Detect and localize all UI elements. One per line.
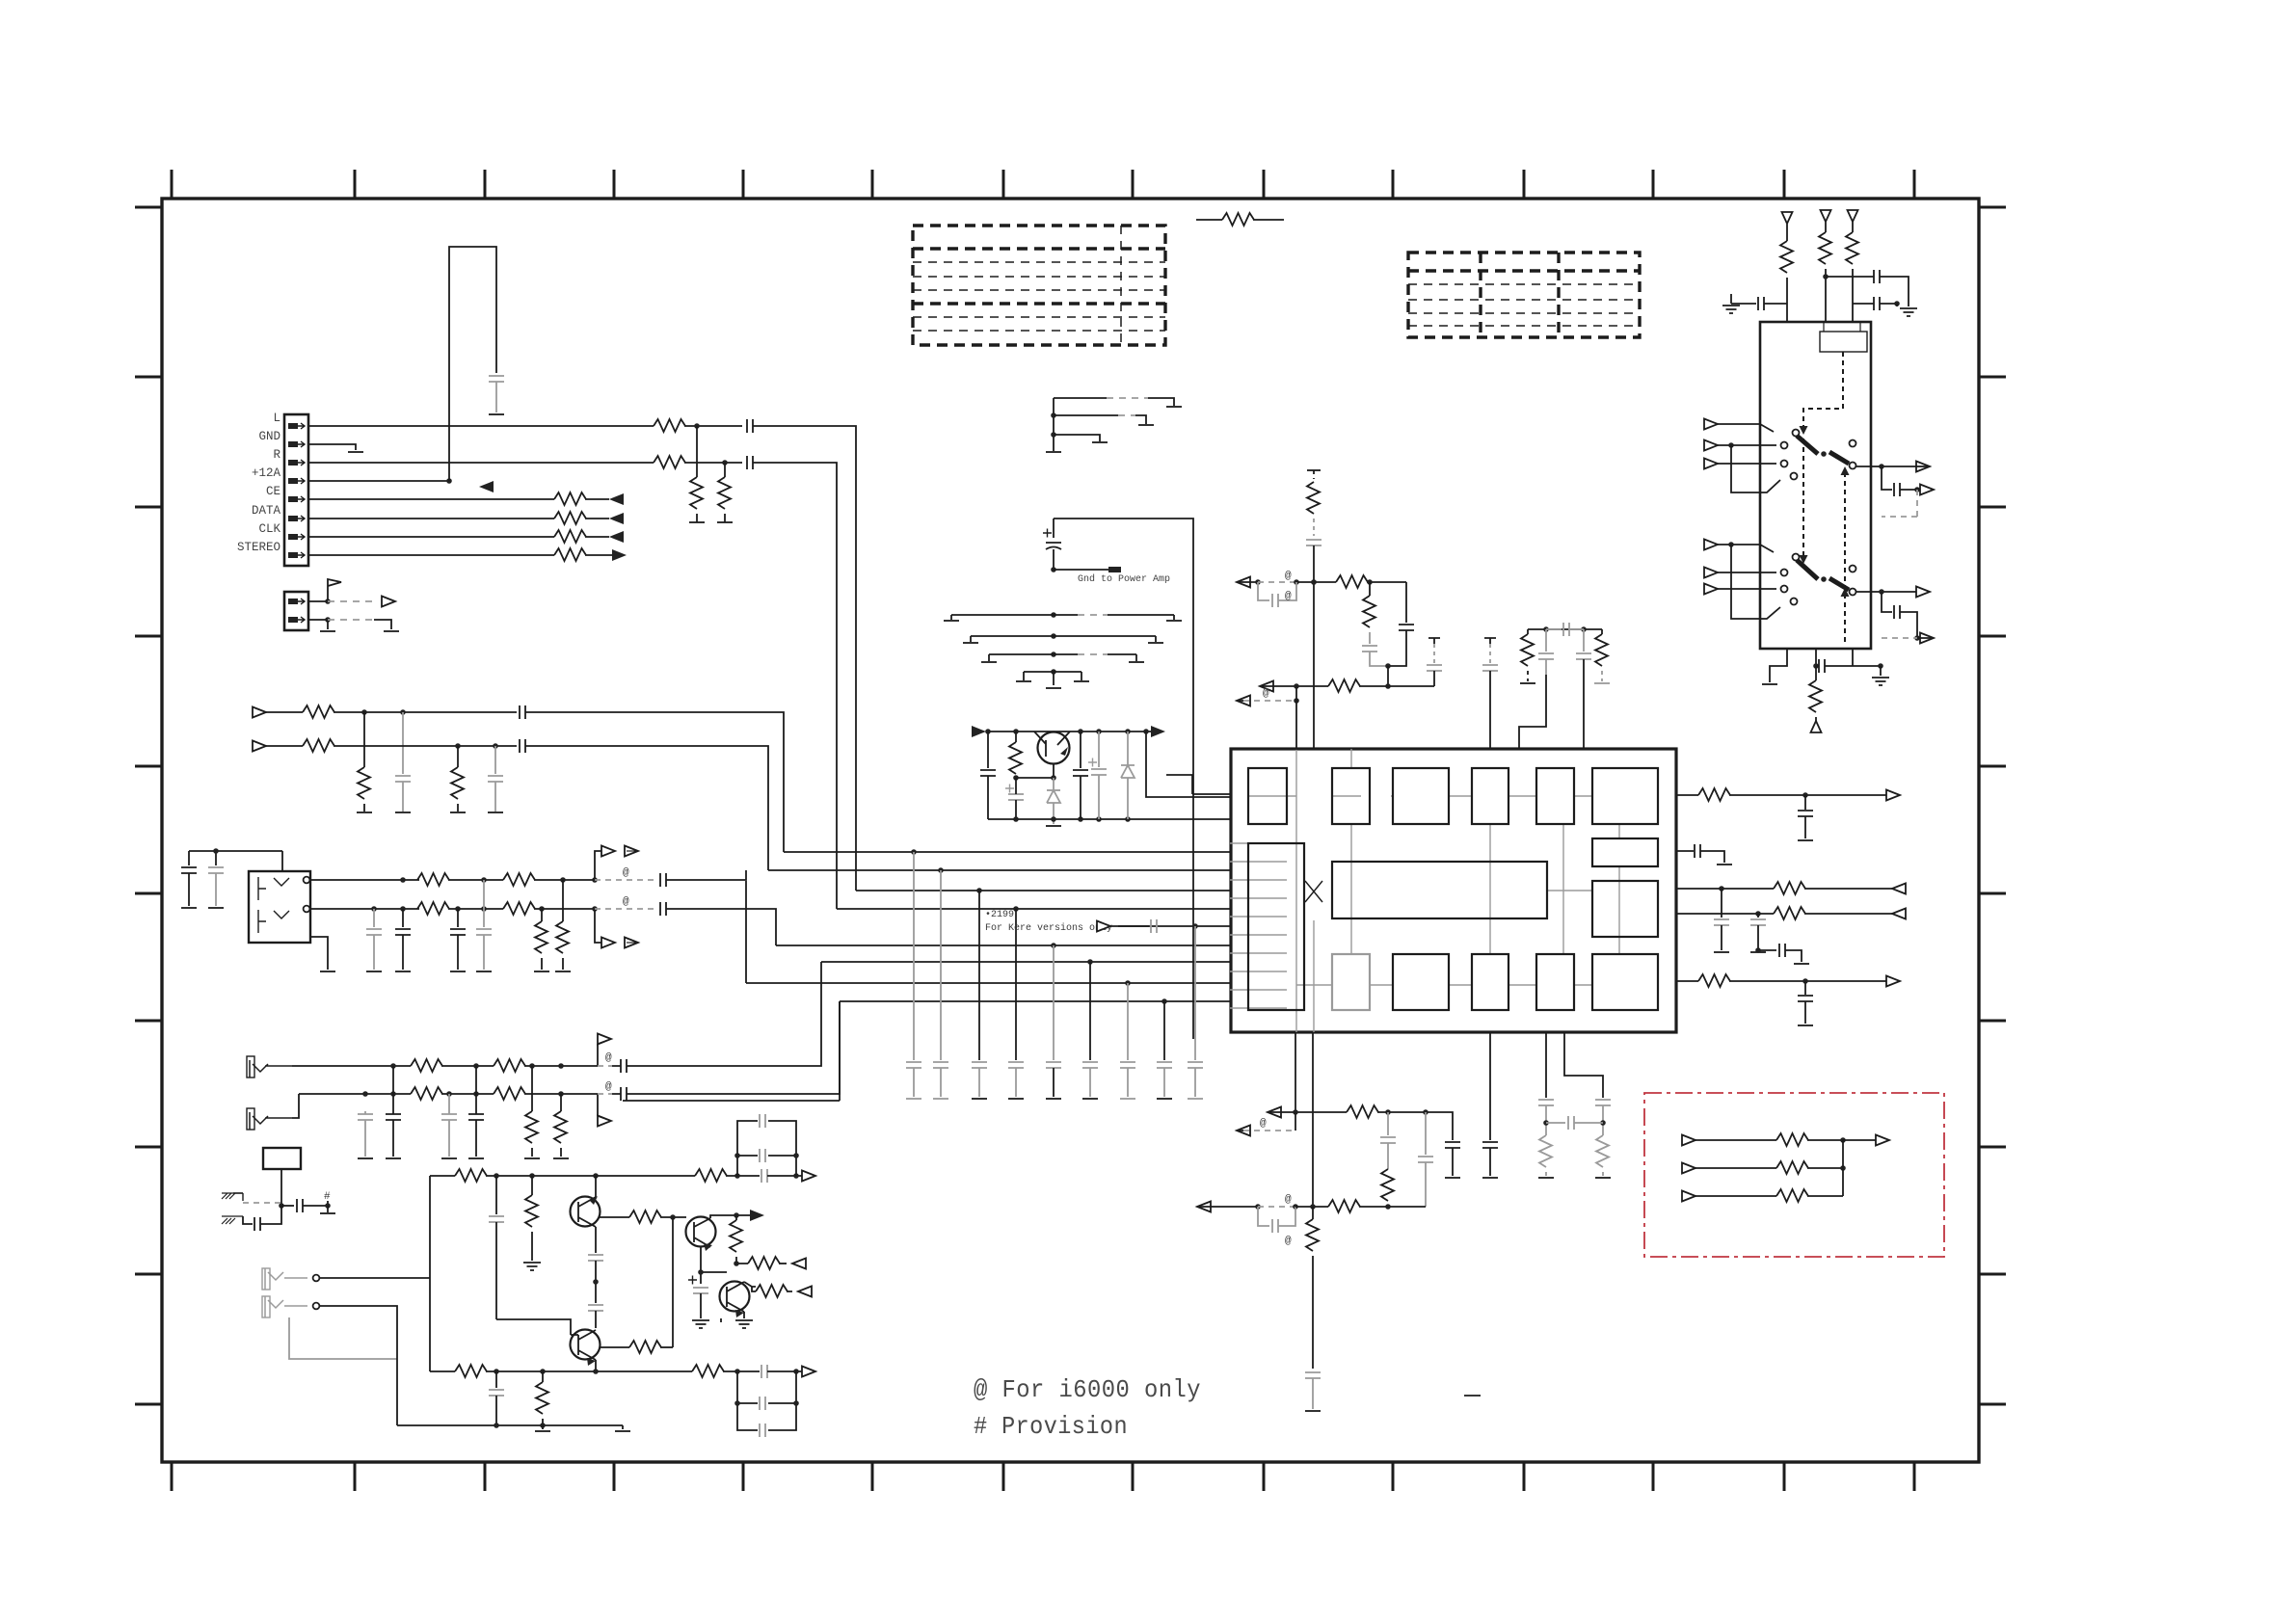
at-link row y727 (1237, 696, 1250, 706)
resistor to gnd row1a (363, 712, 365, 767)
resistor PA2 (494, 1059, 525, 1072)
IC right box R3 (1592, 954, 1658, 1010)
open triangle bottom (1811, 721, 1822, 732)
bottom rail of regulator (988, 818, 1230, 820)
switch lever lower A (1797, 560, 1818, 579)
resistor to gnd at R junction (724, 463, 726, 477)
branch resistor down (1369, 582, 1371, 596)
resistor below box (1815, 666, 1817, 680)
capacitor JA series (660, 873, 666, 887)
svg-text:+12A: +12A (252, 466, 281, 480)
decoupling comb c2 (940, 870, 942, 1060)
IC inner box top B4 (1472, 768, 1508, 824)
CN1 pin 3 (288, 460, 305, 466)
capacitor PB series (621, 1087, 627, 1101)
wire L resistor to cap (684, 425, 742, 427)
amp row1 (430, 1175, 455, 1177)
svg-text:GND: GND (258, 430, 280, 443)
interstage vertical (672, 1217, 674, 1347)
capacitor PA series (621, 1059, 627, 1073)
dashed table 2 (1408, 253, 1640, 337)
bottom edge tick marks (172, 1462, 1914, 1491)
power arrow V3 (1848, 210, 1858, 232)
switch contact circles upper (1793, 430, 1800, 437)
power arrow V2 (1821, 210, 1831, 232)
resistor R-STEREO (554, 548, 586, 561)
node R junction (722, 460, 728, 466)
cap hang B1 (495, 1371, 497, 1388)
switch-link B (595, 909, 602, 943)
small box component (263, 1148, 301, 1169)
chassis gnd small cluster (233, 1193, 243, 1201)
svg-text:CLK: CLK (258, 522, 280, 536)
Q2 base feed (496, 1319, 578, 1335)
cap link RO3b (1758, 949, 1776, 951)
capacitor C-R series (747, 456, 753, 469)
Q3 emitter chain (701, 1247, 727, 1284)
bypass cap at604 (1258, 582, 1269, 600)
ground bar 12A (489, 413, 504, 415)
top rail to right vertical (1054, 519, 1193, 1039)
IC bottom stub x1623 to x1663 (1564, 1032, 1603, 1098)
resistor RC-L (1527, 629, 1529, 634)
svg-text:@: @ (1263, 688, 1269, 700)
capacitor B-out (761, 1365, 767, 1378)
CN1 pin 7 (288, 534, 305, 540)
at-link row y604 (1237, 577, 1250, 588)
bottom rail (397, 1424, 623, 1426)
capacitor series row1 (520, 705, 525, 719)
cap chain x1440 (1387, 1112, 1389, 1135)
resistor RO1 (1698, 788, 1730, 801)
arrow CLK (609, 531, 624, 543)
floating resistor top (1196, 219, 1222, 221)
bus line y961 kere to IC (1118, 925, 1230, 927)
IC bottom stub x1344 (1295, 1032, 1296, 1112)
decoupling comb c1 (913, 852, 915, 1060)
resistor RO4 (1698, 974, 1730, 987)
CN1 labels (237, 412, 281, 554)
small dash mark (1464, 1395, 1481, 1397)
resistor U2 (1328, 1200, 1360, 1212)
IC inner box top B1 (1248, 768, 1287, 824)
left input row 2 arrow (253, 741, 266, 752)
cap gnd JA2 (483, 880, 485, 927)
svg-text:@: @ (623, 867, 629, 879)
switch IC box U2 (1760, 322, 1871, 649)
inner control box (1820, 332, 1867, 352)
resistor mid2 (1328, 679, 1360, 692)
svg-text:@: @ (1285, 1194, 1292, 1206)
bus line y1039 to IC (840, 1000, 1230, 1002)
wire R cap to corner down (753, 463, 837, 909)
cap gnd RO3 (1757, 914, 1759, 918)
resistor QB (1015, 732, 1017, 742)
resistor R-V1 (1780, 241, 1793, 273)
gnd row 2 (1051, 412, 1056, 418)
IC U1 body (1231, 749, 1676, 1032)
plus cap Q3 (688, 1276, 697, 1285)
node V2 (1823, 274, 1829, 279)
zener D1 (1053, 778, 1055, 790)
row y1154 under IC (1268, 1107, 1281, 1118)
bus line y1020 to IC (746, 982, 1230, 984)
star ground row B (1051, 633, 1056, 639)
IC internal gray verticals (1230, 749, 1619, 1032)
red box join vertical (1842, 1140, 1844, 1196)
red provision box (1644, 1093, 1944, 1257)
CN2 pin1 wire (308, 600, 328, 602)
capacitor hash series (297, 1199, 303, 1212)
capacitor C-bot (1819, 659, 1825, 673)
svg-text:# Provision: # Provision (974, 1412, 1128, 1441)
lower input branch upper group (1731, 445, 1780, 492)
cap QC (1080, 732, 1081, 768)
svg-text:•2199: •2199 (985, 910, 1014, 920)
cap in (987, 732, 989, 768)
red box row 1 (1682, 1135, 1695, 1146)
resistor P1 (1776, 1133, 1808, 1146)
svg-text:For Kere versions only: For Kere versions only (985, 922, 1112, 934)
svg-text:DATA: DATA (252, 504, 281, 518)
input arrow S2 (1704, 440, 1718, 451)
jack set 2 row B (299, 1093, 411, 1095)
top edge tick marks (172, 170, 1914, 199)
jack set 2 : jack A (250, 1060, 292, 1078)
cap ladder top (737, 1121, 796, 1176)
amp input vertical (429, 1176, 431, 1371)
resistor row2 (303, 739, 334, 752)
filled arrow on +12A (479, 481, 494, 492)
resistor P3 (1776, 1189, 1808, 1202)
capacitor jleft2 (208, 867, 224, 873)
resistor to gnd at L junction (696, 426, 698, 477)
IC output R1 cap (1676, 850, 1694, 852)
resistor P2 (1776, 1161, 1808, 1174)
capacitor C-V2 (1874, 270, 1880, 283)
CN2 pin2 dashed (328, 619, 374, 621)
capacitor C-out2 (1894, 605, 1900, 619)
resistor B2 (692, 1365, 724, 1377)
stub x1362 down (1312, 1207, 1314, 1219)
IC left tall box (1248, 843, 1304, 1010)
red box row 3 (1682, 1191, 1695, 1202)
resistor A2 (695, 1169, 727, 1182)
resistor R-CE (554, 492, 586, 505)
bus line y998 to IC (821, 961, 1230, 963)
resistor RO3 (1774, 907, 1805, 919)
coupling cap Q1Q2 b (588, 1305, 603, 1311)
bus line y884 to IC (784, 851, 1230, 853)
transistor Q5 (1038, 732, 1070, 764)
CN1 pin 1 (288, 423, 305, 429)
Q4 output resistor (744, 1282, 756, 1291)
resistor JA2 (503, 873, 535, 886)
decoupling comb c7 (1127, 983, 1129, 1060)
junction on supply column (1311, 579, 1317, 585)
CN1 pin 6 (288, 516, 305, 521)
decoupling comb c3 (978, 891, 980, 1060)
switch lever upper B (1829, 452, 1849, 464)
transistor Q1 (571, 1197, 601, 1227)
cap to gnd row1b (402, 712, 404, 774)
resistor R-CLK (554, 530, 586, 543)
bus line y943 to IC (837, 908, 1230, 910)
svg-text:CE: CE (266, 485, 280, 498)
power arrow V1 (1782, 212, 1793, 241)
wire CLK (308, 536, 554, 538)
gnd row 3 (1051, 432, 1056, 438)
svg-text:@: @ (1260, 1118, 1267, 1130)
phones jack A (262, 1268, 270, 1290)
cap chain x1479 (1425, 1112, 1427, 1155)
resistor R-DATA (554, 512, 586, 524)
RC cluster above IC rail (1528, 628, 1602, 630)
ground GND pin (348, 451, 363, 453)
right branch to 827 (1146, 732, 1230, 797)
phones jack A wire (320, 1277, 430, 1279)
svg-text:@ For i6000 only: @ For i6000 only (974, 1375, 1201, 1404)
plus cap QD (1088, 758, 1097, 767)
resistor RC-R (1601, 629, 1603, 634)
wire +12A pin (308, 480, 449, 482)
resistor mid1 (1314, 581, 1336, 583)
CN2 pin 1 (288, 599, 305, 604)
rail arrow out (1151, 726, 1165, 737)
IC output row y922 (1676, 888, 1774, 890)
output lower cap branch (1882, 592, 1892, 612)
jack row A (309, 879, 419, 881)
IC bottom stub x1546 (1489, 1032, 1491, 1140)
ground bar CN2a (320, 630, 335, 632)
interstage resistor R1a (600, 1216, 629, 1218)
svg-text:@: @ (1285, 591, 1292, 602)
transistor Q4 (720, 1282, 750, 1312)
plus cap QB (1005, 785, 1014, 793)
decoupling comb c4 (1015, 909, 1017, 1060)
cap gnd RO2 (1721, 889, 1722, 918)
cap bridge RC (1546, 628, 1562, 630)
interstage resistor R2a (600, 1346, 629, 1348)
arrow STEREO (612, 549, 627, 561)
red box row 2 (1682, 1163, 1695, 1174)
jack row B (309, 908, 419, 910)
res gnd P2 (560, 1094, 562, 1111)
cap ladder bottom (737, 1371, 796, 1430)
resistor R-L (654, 419, 685, 432)
earth bottom of star (1046, 687, 1061, 689)
amp row2 (430, 1370, 455, 1372)
resistor to gnd row2a (457, 746, 459, 767)
IC inner box top B3 (1393, 768, 1449, 824)
gnd stem bottom bar (1046, 451, 1061, 453)
jack set 2 : jack B (250, 1112, 292, 1130)
wire L cap to corner down (753, 426, 856, 891)
decoupling comb c8 (1163, 1001, 1165, 1060)
CN1 pin 4 (288, 478, 305, 484)
row y1252 under IC (1197, 1202, 1211, 1212)
cap x1507 (1445, 1142, 1460, 1148)
Q3 collector to arrow (710, 1215, 750, 1218)
zener D2 (1127, 732, 1129, 765)
Q4 emitter gnd (721, 1312, 744, 1322)
switch-link PA (597, 1044, 599, 1066)
box bottom stub left (1770, 649, 1787, 682)
resistor PB1 (411, 1087, 442, 1100)
decoupling comb c5 (1053, 945, 1055, 1060)
wire V2 to cap right (1826, 276, 1874, 278)
switch-link PB (597, 1094, 599, 1116)
res hang A1 (531, 1176, 533, 1195)
wire R pin to resistor (308, 462, 654, 464)
IC bottom box C4 (1536, 954, 1574, 1010)
output lower (1856, 591, 1916, 593)
capacitor jleft1 (181, 867, 197, 873)
switch lever lower B (1829, 578, 1849, 590)
ground bar bottom left (1762, 683, 1777, 685)
arrow DATA (609, 513, 624, 524)
jack J1 ground stub (310, 937, 328, 970)
left edge tick marks (135, 207, 162, 1404)
resistor R-R (654, 456, 685, 468)
gnd-to-poweramp vertical top (1053, 519, 1055, 538)
resistor JB1 (417, 902, 449, 915)
IC top entry wire (1166, 775, 1230, 794)
resistor PB2 (494, 1087, 525, 1100)
capacitor C-L series (747, 419, 753, 433)
cap to gnd row2b (494, 746, 496, 774)
IC inner box top B5 (1536, 768, 1574, 824)
coupling cap Q1Q2 a (588, 1255, 603, 1261)
ground bar L divider (689, 521, 705, 523)
svg-text:@: @ (623, 896, 629, 908)
decoupling comb c6 (1089, 962, 1091, 1060)
res hang B2 (542, 1371, 544, 1382)
IC bottom stub x1362 (1312, 1032, 1314, 1207)
jack block J1 body (249, 871, 310, 943)
cap to gnd RO4 (1804, 981, 1806, 995)
gnd row 1 (1054, 397, 1107, 399)
IC bottom box C1 (1332, 954, 1370, 1010)
bus line y903 to IC (768, 869, 1230, 871)
wire to Gnd label (1054, 569, 1108, 571)
output upper cap branch (1882, 466, 1892, 490)
regulator rail arrow in (972, 726, 986, 737)
svg-text:@: @ (1285, 1236, 1292, 1247)
IC inner box top B6 (1592, 768, 1658, 824)
input arrow S4 (1704, 540, 1718, 550)
dashed control line 1 (1803, 352, 1843, 427)
resistor row1 (303, 705, 334, 718)
CN2 pin1 dashed wire (328, 600, 376, 602)
bus line y924 to IC (856, 890, 1230, 891)
svg-text:L: L (273, 412, 280, 425)
cap down RC-1 (1545, 629, 1547, 652)
decoupling comb c9 (1194, 926, 1196, 1060)
phones jack B wire (320, 1306, 397, 1425)
CN2 pin 2 (288, 617, 305, 623)
IC output row y948 (1676, 913, 1774, 915)
capacitor C-12A (489, 376, 504, 382)
switch lever upper A (1797, 436, 1818, 454)
switch-link A (595, 851, 602, 880)
cap bridge y1165 (1546, 1122, 1565, 1124)
capacitor kere series (1151, 919, 1157, 933)
capacitor JB series (660, 902, 666, 916)
dashed control line 2 (1844, 472, 1846, 644)
switch contact circles lower (1793, 554, 1800, 561)
svg-text:Gnd to Power Amp: Gnd to Power Amp (1078, 573, 1170, 585)
sheet border frame (162, 199, 1979, 1462)
output upper (1856, 466, 1916, 467)
arrow CE (609, 493, 624, 505)
res gnd JB3 (562, 880, 564, 921)
wire DATA (308, 518, 554, 519)
connector CN2 body (284, 592, 308, 630)
kere arrow (1097, 921, 1110, 932)
rail wire (986, 731, 1151, 732)
capacitor C-V1left (1758, 297, 1764, 310)
resistor U1 (1347, 1105, 1378, 1118)
cap column x1546 (1484, 638, 1496, 644)
wire STEREO (308, 554, 554, 556)
star ground row A (1051, 612, 1056, 618)
caps left of jack block (189, 851, 282, 865)
input arrow S5 (1704, 568, 1718, 578)
ground bar CN2b (384, 630, 399, 632)
svg-text:R: R (273, 448, 280, 462)
svg-text:@: @ (1285, 571, 1292, 582)
wire GND pin (308, 444, 356, 450)
dashed table 1 (913, 226, 1165, 345)
input arrow S3 (1704, 459, 1718, 469)
capacitor series row2 (520, 739, 525, 753)
svg-text:@: @ (605, 1081, 612, 1093)
star ground row D (1051, 669, 1056, 675)
Q3 bias resistor (735, 1215, 737, 1220)
supply column x1363 above IC (1307, 469, 1321, 471)
cap gnd JA1 (402, 909, 404, 927)
IC output row y1018 (1676, 980, 1698, 982)
wire L pin to resistor (308, 425, 654, 427)
plus sign (1043, 529, 1052, 538)
cap hang A1 (495, 1176, 497, 1214)
bypass cap y1272 (1258, 1207, 1269, 1226)
star ground row C (1051, 652, 1056, 657)
text 2199 note (985, 910, 1112, 934)
IC bottom box C3 (1472, 954, 1508, 1010)
res gnd JA3 (541, 909, 543, 921)
resistor B1 (455, 1365, 487, 1377)
connector CN1 body (284, 414, 308, 566)
wire +12A loop up (449, 247, 496, 481)
resistor R-V3 (1846, 232, 1858, 264)
row y712 (1260, 681, 1273, 692)
hang caps/res row PA/PB (364, 1111, 366, 1114)
right edge tick marks (1979, 207, 2006, 1404)
bottom cap branch (1815, 649, 1817, 666)
CN1 pin 8 (288, 552, 305, 558)
bus line y981 to IC (776, 945, 1230, 946)
cap down RC-2 (1583, 629, 1585, 652)
CN1 pin 5 (288, 496, 305, 502)
jack set 2 row A (292, 1065, 411, 1067)
phones jack B (262, 1296, 270, 1317)
wire R resistor to cap (684, 462, 742, 464)
resistor PA1 (411, 1059, 442, 1072)
left cap to V1 node (1731, 294, 1756, 304)
note text (974, 1375, 1201, 1441)
